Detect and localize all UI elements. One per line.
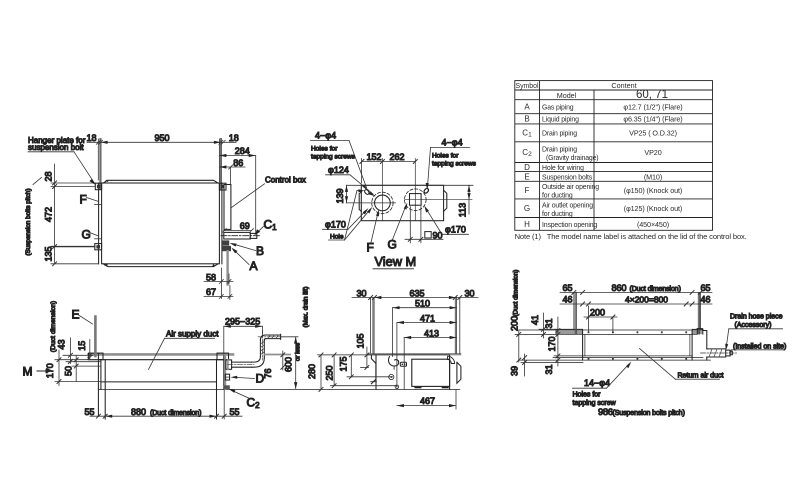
dim 105	[366, 347, 368, 367]
dim 31 top	[557, 317, 559, 366]
dim 86	[219, 166, 245, 168]
svg-text:950: 950	[155, 133, 170, 143]
drain elbow up	[252, 357, 265, 368]
dim 39	[524, 354, 526, 376]
dim 467	[455, 390, 457, 409]
svg-text:φ6.35 (1/4") (Flare): φ6.35 (1/4") (Flare)	[623, 115, 682, 124]
svg-text:(Suspension bolts pitch): (Suspension bolts pitch)	[25, 188, 32, 255]
suspension bolt top-left	[100, 139, 101, 190]
svg-text:(Max. drain lift): (Max. drain lift)	[303, 287, 310, 328]
svg-text:46: 46	[701, 295, 711, 305]
dim 31 bottom	[556, 358, 560, 362]
dim 67	[229, 286, 231, 300]
ext lines top	[370, 298, 372, 354]
svg-text:15: 15	[77, 341, 87, 351]
svg-text:(Suspension bolts pitch): (Suspension bolts pitch)	[613, 410, 685, 417]
extension lines top	[98, 139, 255, 233]
svg-text:46: 46	[563, 295, 573, 305]
svg-text:Inspection opening: Inspection opening	[542, 222, 597, 229]
dim 46 4x200=800 46	[560, 303, 712, 305]
svg-text:880: 880	[131, 407, 146, 417]
svg-text:Model: Model	[557, 91, 577, 100]
knockout phi170 left dashed	[372, 192, 393, 213]
svg-text:tapping screws: tapping screws	[311, 154, 356, 161]
hanger plate bottom-left	[95, 244, 102, 250]
hole F circle phi124	[375, 195, 391, 211]
svg-text:Drain piping: Drain piping	[542, 147, 577, 154]
svg-text:or less: or less	[295, 343, 302, 361]
svg-text:31: 31	[544, 364, 554, 374]
svg-text:4−φ4: 4−φ4	[315, 131, 336, 141]
svg-text:Liquid piping: Liquid piping	[542, 117, 579, 124]
table text	[516, 81, 683, 229]
svg-text:60, 71: 60, 71	[636, 89, 668, 101]
svg-text:(450×450): (450×450)	[637, 220, 669, 229]
unit bottom	[553, 357, 703, 359]
hanger plate right gray	[692, 331, 703, 334]
liquid piping fitting A	[221, 246, 231, 251]
drain riser	[259, 340, 261, 357]
dim 18-950-18	[87, 140, 236, 144]
svg-text:Gas piping: Gas piping	[542, 105, 574, 112]
left hole center lines	[381, 159, 383, 221]
svg-text:for ducting: for ducting	[542, 211, 573, 218]
motor circle	[389, 374, 394, 379]
svg-text:860: 860	[612, 283, 627, 293]
svg-text:55: 55	[85, 407, 95, 417]
dim 170 rear	[556, 354, 560, 358]
svg-text:135: 135	[44, 246, 54, 261]
svg-text:175: 175	[339, 356, 349, 371]
svg-text:(M10): (M10)	[644, 172, 662, 181]
ceiling gray line right	[265, 354, 291, 356]
dim 152 262	[362, 161, 415, 163]
internal line 175	[347, 376, 393, 378]
right hole center lines	[414, 159, 416, 221]
duct bottom	[554, 355, 692, 357]
fan scroll	[389, 357, 399, 366]
svg-text:(Accessory): (Accessory)	[735, 322, 772, 329]
tapping screw holes top	[588, 331, 688, 333]
svg-text:30: 30	[465, 288, 475, 298]
svg-text:Hole for wiring: Hole for wiring	[542, 165, 584, 172]
svg-text:139: 139	[335, 188, 345, 203]
svg-text:tapping screws: tapping screws	[432, 161, 477, 168]
dim square 90	[409, 207, 411, 243]
svg-text:65: 65	[701, 283, 711, 293]
left stepped profile	[371, 355, 376, 384]
svg-text:86: 86	[233, 158, 243, 168]
svg-text:58: 58	[206, 272, 216, 282]
svg-text:200: 200	[590, 308, 605, 318]
D fitting	[225, 374, 229, 380]
tiny 4mm hole right	[423, 188, 429, 194]
left dims 28 472 135	[51, 164, 99, 266]
svg-text:(Duct dimension): (Duct dimension)	[630, 286, 681, 293]
table grid	[515, 81, 713, 231]
flange top	[515, 333, 697, 335]
dim 50	[75, 356, 77, 381]
dim 139	[346, 185, 348, 203]
svg-text:(Gravity drainage): (Gravity drainage)	[546, 155, 598, 162]
ceiling line long	[98, 388, 459, 390]
square hole 90	[410, 194, 422, 206]
svg-text:Content: Content	[611, 81, 636, 90]
svg-text:31: 31	[544, 318, 554, 328]
end panel	[361, 185, 443, 220]
dim 15	[89, 340, 91, 360]
svg-text:284: 284	[235, 146, 250, 156]
unit top gray	[369, 353, 460, 355]
gas piping fitting B	[221, 240, 229, 245]
svg-text:280: 280	[307, 364, 317, 379]
dim 69	[223, 230, 251, 232]
right flange plate	[457, 362, 461, 383]
svg-text:Outside air opening: Outside air opening	[542, 184, 599, 191]
hanger plate top-right	[219, 183, 226, 190]
svg-text:E: E	[72, 308, 80, 322]
duct walls	[104, 360, 106, 419]
svg-text:for ducting: for ducting	[542, 192, 573, 199]
svg-text:4−φ4: 4−φ4	[442, 138, 463, 148]
svg-text:18: 18	[229, 133, 239, 143]
svg-text:Hole: Hole	[330, 234, 344, 241]
svg-text:M: M	[23, 365, 33, 379]
bottom chamfered plate	[103, 264, 218, 267]
svg-text:Holes for: Holes for	[432, 153, 459, 160]
internal line 105	[361, 366, 369, 368]
svg-text:Holes for: Holes for	[311, 146, 338, 153]
svg-text:600: 600	[284, 357, 294, 372]
svg-text:28: 28	[44, 171, 54, 181]
dim 43	[69, 338, 71, 364]
svg-text:A: A	[250, 259, 258, 273]
svg-text:30: 30	[357, 288, 367, 298]
svg-text:50: 50	[64, 366, 74, 376]
svg-text:E: E	[524, 172, 529, 181]
svg-text:90: 90	[433, 230, 443, 240]
svg-text:F: F	[525, 186, 530, 195]
svg-text:14−φ4: 14−φ4	[584, 378, 610, 388]
svg-text:VP25 ( O.D.32): VP25 ( O.D.32)	[629, 129, 677, 138]
svg-text:VP20: VP20	[644, 148, 661, 157]
control box	[224, 185, 231, 230]
svg-text:H: H	[524, 220, 530, 229]
svg-text:(φ150) (Knock out): (φ150) (Knock out)	[624, 186, 682, 195]
box corner curl	[447, 356, 454, 363]
svg-text:467: 467	[420, 396, 435, 406]
svg-text:(Installed on site): (Installed on site)	[733, 343, 786, 350]
dim 113	[468, 185, 470, 214]
svg-text:471: 471	[420, 313, 435, 323]
svg-text:250: 250	[325, 365, 335, 380]
top view unit body	[102, 183, 220, 264]
riser hatch	[260, 341, 264, 354]
svg-text:Return air duct: Return air duct	[678, 373, 724, 380]
heat exchanger box	[412, 359, 450, 386]
right edge knockout bracket	[444, 190, 447, 211]
dim 200 screw pitch	[584, 316, 617, 318]
svg-text:413: 413	[424, 328, 439, 338]
drain top pipe	[265, 334, 280, 336]
dim 58	[220, 268, 222, 299]
svg-text:φ12.7 (1/2") (Flare): φ12.7 (1/2") (Flare)	[623, 103, 682, 112]
svg-text:67: 67	[206, 287, 216, 297]
knockout phi170 right dashed	[405, 189, 427, 211]
duct walls	[582, 330, 584, 360]
dim 76	[282, 351, 284, 370]
svg-text:Air outlet opening: Air outlet opening	[542, 203, 593, 210]
dim 250	[333, 355, 335, 386]
hanger plate top-left	[95, 183, 101, 190]
tapping screw holes bottom	[588, 358, 688, 360]
dim 175	[350, 355, 352, 377]
svg-text:510: 510	[415, 299, 430, 309]
svg-text:55: 55	[230, 407, 240, 417]
svg-text:76: 76	[263, 368, 273, 378]
unit right edge	[223, 356, 225, 390]
svg-text:(φ125) (Knock out): (φ125) (Knock out)	[624, 204, 682, 213]
left edge knockout bracket	[359, 192, 361, 212]
dim 413	[404, 337, 456, 339]
svg-text:Symbol: Symbol	[516, 83, 539, 90]
dim 280	[320, 355, 322, 390]
dim 510	[393, 307, 457, 309]
svg-text:113: 113	[457, 203, 467, 217]
internal line 250	[331, 385, 397, 387]
svg-text:F: F	[80, 193, 87, 207]
hanger bracket left	[89, 353, 104, 360]
svg-text:39: 39	[509, 366, 519, 376]
flange bottom long	[519, 359, 711, 361]
svg-text:65: 65	[563, 283, 573, 293]
svg-text:G: G	[82, 228, 91, 242]
svg-text:105: 105	[356, 333, 366, 348]
svg-text:Air supply duct: Air supply duct	[166, 330, 219, 339]
svg-text:(Duct dimension): (Duct dimension)	[512, 270, 519, 317]
dim 65 860 65	[560, 291, 712, 293]
svg-text:635: 635	[410, 288, 425, 298]
svg-text:B: B	[524, 115, 529, 124]
small ext lines	[63, 354, 93, 356]
svg-text:View M: View M	[375, 254, 417, 269]
drain flange on unit	[226, 360, 232, 369]
svg-text:(Duct dimension): (Duct dimension)	[150, 410, 201, 417]
svg-text:Control box: Control box	[265, 176, 306, 185]
drain pipe horizontal	[232, 361, 252, 363]
svg-text:A: A	[524, 103, 530, 112]
svg-text:41: 41	[530, 315, 540, 325]
dim 30 635 30	[352, 297, 478, 299]
svg-text:Suspension bolts: Suspension bolts	[542, 174, 593, 181]
svg-text:4×200=800: 4×200=800	[625, 295, 668, 305]
drain drop gray pipe	[226, 251, 228, 284]
svg-text:152: 152	[367, 152, 382, 162]
tiny 4mm hole left	[364, 189, 370, 195]
svg-text:295−325: 295−325	[225, 317, 260, 327]
top chamfered plate	[103, 180, 218, 183]
svg-text:18: 18	[87, 133, 97, 143]
svg-text:170: 170	[547, 336, 557, 351]
dim 284	[219, 155, 255, 157]
svg-text:986: 986	[598, 407, 613, 418]
dim 600 or less	[295, 337, 297, 389]
svg-text:φ170: φ170	[325, 220, 346, 230]
svg-text:Holes for: Holes for	[573, 392, 602, 399]
hanger bracket right	[217, 353, 229, 360]
unit right edge	[449, 355, 451, 390]
dim 471	[397, 322, 457, 324]
left lower plate line	[521, 362, 583, 364]
C2 fitting	[224, 385, 230, 389]
svg-text:Drain piping: Drain piping	[542, 131, 577, 138]
ext verticals	[573, 292, 575, 330]
svg-text:472: 472	[44, 207, 54, 222]
terminal block	[400, 362, 406, 366]
dim 55 880 55	[90, 415, 242, 417]
svg-text:262: 262	[390, 152, 405, 162]
drain pipe C1	[224, 232, 250, 239]
svg-text:200: 200	[509, 316, 519, 331]
svg-text:G: G	[524, 204, 530, 213]
dim 170	[58, 350, 60, 386]
svg-text:Drain hose piece: Drain hose piece	[730, 314, 783, 321]
unit top	[519, 329, 703, 331]
dim 295-325	[224, 325, 262, 327]
drain top elbow	[260, 335, 266, 340]
svg-text:suspension bolt: suspension bolt	[28, 143, 84, 152]
dim 200 duct dimension left	[518, 330, 520, 362]
svg-text:D: D	[524, 163, 530, 172]
drain outlet	[395, 385, 399, 389]
svg-text:φ124: φ124	[328, 165, 349, 175]
dim 41	[543, 313, 545, 338]
svg-text:Note (1) The model name labe: Note (1) The model name label is attache…	[515, 232, 747, 241]
inner wall	[375, 355, 377, 390]
svg-text:φ170: φ170	[445, 225, 466, 235]
svg-text:F: F	[367, 241, 374, 255]
unit top plate gray	[89, 353, 234, 356]
hanger plate left gray	[556, 331, 583, 334]
svg-text:43: 43	[57, 339, 67, 349]
suspension bolt top-right	[220, 139, 221, 190]
svg-text:B: B	[256, 244, 264, 258]
svg-text:69: 69	[240, 221, 250, 231]
suspension bolt E	[94, 317, 97, 357]
suspension bolts side	[373, 298, 457, 354]
unit body lines	[97, 353, 99, 416]
drain hose piece	[697, 329, 707, 349]
suspension bolts rear	[575, 292, 699, 334]
